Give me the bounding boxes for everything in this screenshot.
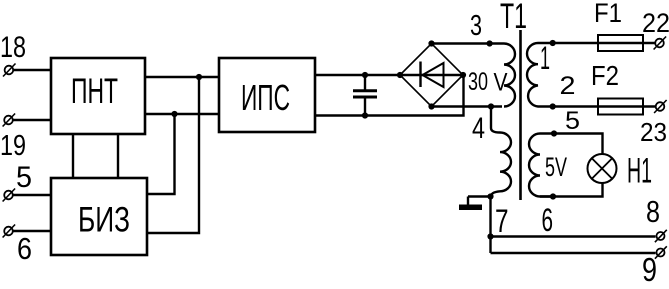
fuse F1 — [598, 35, 643, 51]
ground — [459, 197, 482, 211]
svg-text:22: 22 — [642, 8, 669, 38]
terminal 5 — [3, 189, 16, 202]
svg-text:F1: F1 — [594, 0, 622, 28]
fuse F2 — [598, 99, 643, 115]
svg-text:8: 8 — [646, 194, 660, 229]
svg-text:18: 18 — [0, 31, 26, 64]
svg-text:5: 5 — [565, 107, 580, 135]
svg-text:T1: T1 — [500, 0, 527, 36]
junction dot pin 5 — [551, 130, 557, 136]
svg-text:5V: 5V — [545, 152, 567, 182]
junction dot pin 3 — [487, 40, 493, 46]
svg-text:F2: F2 — [591, 60, 619, 91]
junction dot pin 2 — [550, 103, 556, 109]
wire pin 2 to fuse F2 to terminal 23 — [553, 105, 655, 107]
wire terminal5 to BIZ — [13, 194, 51, 196]
svg-text:V: V — [494, 69, 508, 97]
node bridge top — [428, 40, 434, 46]
wire pin 5 to lamp — [554, 134, 603, 155]
svg-text:19: 19 — [0, 130, 26, 162]
svg-text:30: 30 — [468, 68, 488, 96]
wire IPS output top rail — [315, 74, 400, 76]
node bridge left — [397, 72, 403, 78]
svg-text:1: 1 — [540, 40, 550, 76]
transformer T1 core — [519, 30, 522, 200]
junction dot — [362, 72, 368, 78]
terminal 22 — [654, 37, 667, 50]
svg-text:БИЗ: БИЗ — [78, 201, 130, 240]
wire terminal18 to PNT — [14, 69, 52, 71]
T1 primary winding lower — [491, 107, 511, 197]
T1 secondary winding lower 5V — [529, 134, 554, 197]
junction dot pin 7 — [487, 193, 493, 199]
wire IPS output bottom rail — [315, 75, 464, 116]
wire bridge top to T1 pin 3 — [432, 42, 505, 44]
wire to terminal 9 — [491, 252, 656, 254]
wire BIZ output 1 — [147, 114, 175, 194]
svg-text:4: 4 — [472, 112, 485, 145]
wire PNT-BIZ vertical left — [72, 134, 74, 178]
svg-text:H1: H1 — [627, 152, 652, 191]
terminal 9 — [655, 246, 667, 258]
wire PNT-BIZ vertical right — [117, 134, 119, 178]
wire terminal19 to PNT — [13, 119, 51, 121]
junction dot — [171, 111, 177, 117]
capacitor C1 — [353, 75, 377, 116]
wire pin 7 down — [489, 197, 491, 254]
terminal 19 — [3, 114, 16, 127]
wire pin 1 to fuse F1 to terminal 22 — [553, 42, 655, 44]
junction dot — [362, 112, 368, 118]
block BIZ — [51, 178, 147, 255]
lamp H1 — [588, 154, 617, 183]
junction dot — [196, 74, 202, 80]
wire to terminal 8 — [491, 235, 656, 237]
terminal 23 — [654, 100, 667, 113]
svg-text:3: 3 — [470, 10, 482, 42]
svg-text:6: 6 — [17, 231, 32, 266]
svg-text:23: 23 — [640, 117, 667, 147]
terminal 18 — [3, 64, 16, 77]
block IPS — [219, 58, 315, 132]
wire pin 7 ground branch — [468, 195, 491, 197]
T1 primary winding 30V — [504, 44, 515, 107]
terminal 8 — [655, 230, 667, 242]
svg-text:2: 2 — [560, 72, 576, 100]
junction dot pin 6 — [550, 193, 556, 199]
svg-text:ПНТ: ПНТ — [71, 72, 118, 111]
wire BIZ output 2 — [147, 77, 199, 233]
block PNT — [51, 58, 145, 134]
node bridge bottom — [428, 103, 434, 109]
svg-text:5: 5 — [16, 161, 32, 194]
wire lamp bottom to pin 6 — [540, 183, 603, 197]
svg-text:ИПС: ИПС — [241, 77, 290, 118]
wire PNT to IPS top — [145, 76, 219, 78]
node bridge right — [460, 72, 466, 78]
svg-text:6: 6 — [542, 202, 554, 238]
svg-text:7: 7 — [495, 203, 509, 239]
wire PNT to IPS bottom — [145, 113, 219, 115]
bridge rectifier VD1 — [400, 44, 463, 107]
svg-text:9: 9 — [642, 251, 657, 288]
junction dot pin 4 — [488, 103, 494, 109]
wire terminal6 to BIZ — [13, 230, 51, 232]
junction dot pin 1 — [550, 40, 556, 46]
junction dot — [487, 233, 493, 239]
wire bridge bottom to T1 pin 4 — [432, 105, 503, 107]
T1 secondary winding upper — [527, 43, 553, 107]
terminal 6 — [3, 225, 16, 238]
